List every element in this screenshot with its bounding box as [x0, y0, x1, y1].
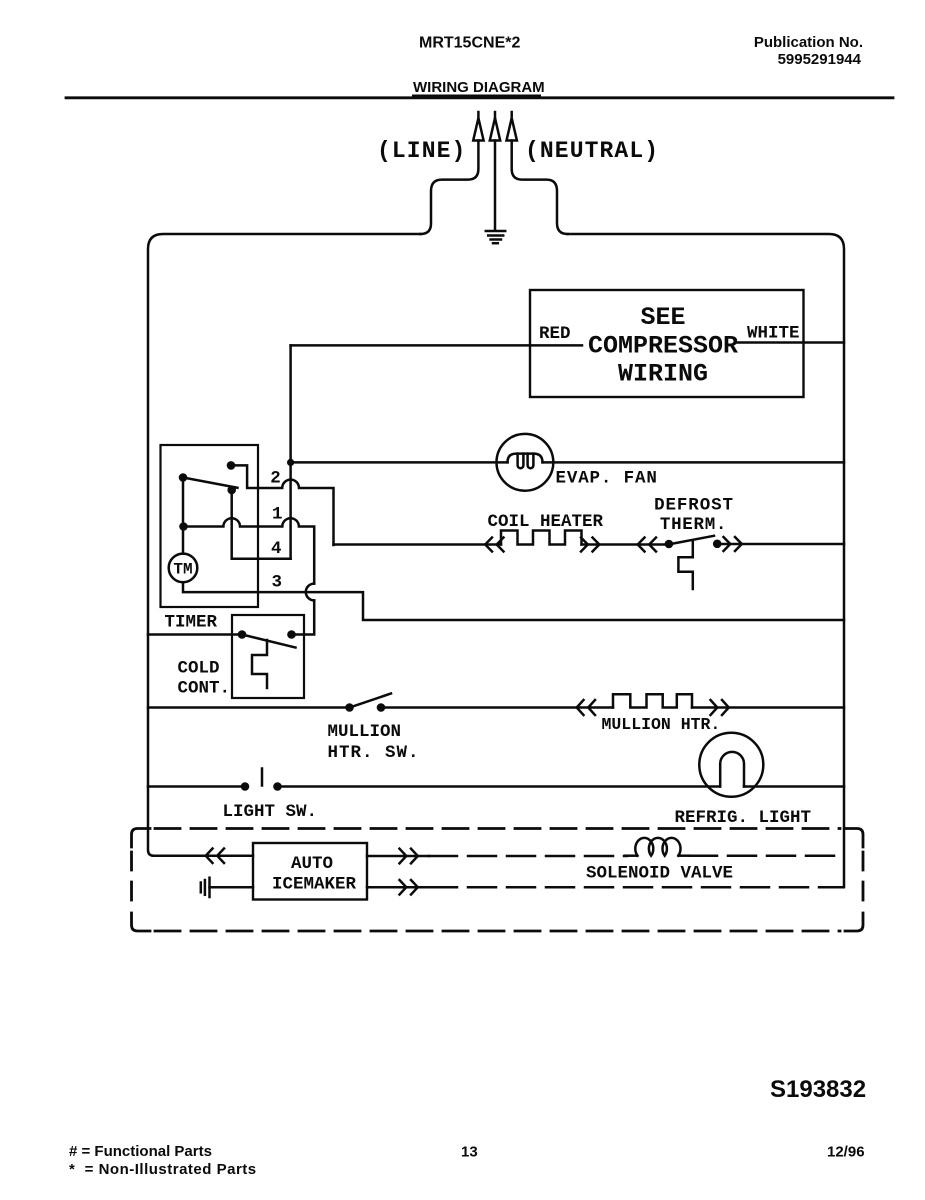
svg-text:S193832: S193832: [770, 1076, 866, 1103]
timer motor TM: [169, 554, 198, 583]
wire terminal 4 to feed vertical: [232, 490, 291, 559]
wire chassis ground to icemaker: [210, 886, 254, 889]
wire mullion line middle segment: [381, 706, 613, 709]
timer terminal dot 4: [227, 486, 236, 495]
svg-text:* = Non-Illustrated Parts: * = Non-Illustrated Parts: [69, 1161, 257, 1178]
svg-text:(LINE): (LINE): [377, 138, 466, 164]
wire light line from left border to light switch: [148, 785, 245, 788]
wire icemaker return bottom: [367, 886, 429, 889]
svg-text:COIL HEATER: COIL HEATER: [488, 512, 604, 532]
wire WHITE from compressor box to right border: [737, 341, 845, 344]
wire RED from compressor box to timer feed vertical: [291, 344, 582, 347]
svg-text:HTR. SW.: HTR. SW.: [328, 743, 420, 763]
cold control box: [232, 615, 304, 698]
svg-text:(NEUTRAL): (NEUTRAL): [525, 138, 659, 164]
svg-text:TM: TM: [173, 561, 192, 579]
defrost thermostat contact dot right: [713, 540, 722, 549]
label COLD CONT.: [178, 659, 231, 699]
header model number text: [419, 35, 520, 52]
wire terminal 1 to cold control (hops over two verticals): [184, 518, 315, 583]
svg-text:2: 2: [270, 469, 281, 489]
defrost thermostat sensing element: [678, 541, 692, 589]
wire terminal1 vertical down to cold control: [292, 600, 315, 634]
ground symbol: [486, 231, 505, 243]
mullion heater element: [613, 694, 692, 707]
svg-text:REFRIG. LIGHT: REFRIG. LIGHT: [675, 808, 812, 828]
svg-text:WIRING DIAGRAM: WIRING DIAGRAM: [413, 79, 545, 96]
evap fan motor M1: [497, 434, 554, 491]
timer terminal dot 1: [179, 522, 188, 531]
label MULLION HTR. SW.: [328, 722, 420, 763]
dashed wire icemaker return to right border: [429, 886, 844, 889]
timer terminal dot 2: [227, 461, 236, 470]
svg-text:MRT15CNE*2: MRT15CNE*2: [419, 35, 520, 52]
svg-text:LIGHT SW.: LIGHT SW.: [223, 802, 318, 822]
footer legend functional parts: [69, 1143, 257, 1178]
svg-text:Publication No.: Publication No.: [754, 34, 863, 51]
svg-text:TIMER: TIMER: [165, 613, 218, 633]
light switch dot right: [273, 782, 282, 791]
connector chevrons on icemaker return: [400, 880, 418, 895]
connector chevrons after mullion heater: [711, 700, 729, 715]
svg-text:COLD: COLD: [178, 659, 220, 679]
svg-text:AUTO: AUTO: [291, 854, 333, 874]
wire evap fan line left segment: [291, 461, 508, 464]
wire vertical feed (red) down to timer terminal 4 level: [289, 345, 292, 558]
label AUTO ICEMAKER: [272, 854, 357, 895]
neutral arrow terminal (middle plug prong): [490, 112, 500, 141]
connector chevrons after defrost thermostat: [724, 537, 742, 551]
connector chevrons on icemaker output top: [400, 849, 418, 864]
wire icemaker output top: [367, 855, 429, 858]
header title WIRING DIAGRAM: [413, 79, 545, 96]
timer box: [161, 445, 259, 607]
dashed wire to solenoid valve: [429, 855, 627, 858]
svg-text:1: 1: [272, 505, 283, 525]
light switch dot left: [241, 782, 250, 791]
connector chevrons on coil heater line (left pair): [485, 538, 503, 552]
header horizontal rule: [66, 96, 893, 99]
mullion heater switch dot left: [345, 703, 354, 712]
compressor box: [530, 290, 804, 397]
svg-text:ICEMAKER: ICEMAKER: [272, 875, 357, 895]
svg-text:EVAP. FAN: EVAP. FAN: [556, 469, 658, 489]
connector chevrons before defrost thermostat: [638, 538, 656, 552]
mullion heater switch dot right: [377, 703, 386, 712]
wire icemaker feed from left border corner: [154, 855, 253, 858]
svg-text:DEFROST: DEFROST: [654, 496, 734, 516]
wire from LINE prong to left border (staircase): [421, 141, 479, 235]
svg-text:4: 4: [271, 539, 282, 559]
wire ground stem: [494, 141, 497, 231]
header publication number text: [754, 34, 863, 68]
svg-text:12/96: 12/96: [827, 1144, 865, 1161]
wire terminal 3 from timer motor to right border: [183, 582, 844, 620]
auto icemaker box: [253, 843, 367, 900]
connector chevrons after coil heater (right pair): [581, 538, 599, 552]
node junction dot at evap fan branch: [287, 459, 294, 466]
svg-text:5995291944: 5995291944: [778, 51, 862, 68]
svg-text:RED: RED: [539, 324, 571, 344]
svg-text:MULLION HTR.: MULLION HTR.: [602, 715, 721, 734]
wire terminal 2 to coil heater line (with hop over feed wire): [231, 465, 334, 545]
wire mullion line from left border to heater switch: [148, 706, 350, 709]
wire left border to cold control: [148, 633, 242, 636]
ground arrow terminal (right plug prong): [507, 112, 517, 141]
dashed wire solenoid to right border: [689, 854, 844, 857]
svg-text:WHITE: WHITE: [747, 324, 800, 344]
svg-text:COMPRESSOR: COMPRESSOR: [588, 332, 738, 361]
solenoid valve coil L1: [625, 838, 690, 856]
cold control switch arm: [242, 635, 296, 648]
svg-text:3: 3: [272, 573, 283, 593]
timer terminal dot common (switch pivot): [179, 473, 188, 482]
wire mullion line to right border: [692, 706, 844, 709]
cold control contact dot left: [238, 630, 247, 639]
label SEE COMPRESSOR WIRING: [588, 303, 738, 389]
wire defrost line to right border: [717, 543, 844, 546]
wire from NEUTRAL prong to right border (staircase): [512, 141, 568, 235]
defrost thermostat switch arm: [668, 536, 714, 545]
wire light line to refrigerator light: [278, 785, 721, 788]
cold control bellows element: [252, 640, 267, 688]
coil heater element: [501, 531, 582, 545]
wire evap fan line right segment to right border: [543, 461, 845, 464]
mullion heater switch arm: [350, 694, 392, 708]
refrigerator light bulb: [699, 733, 763, 797]
svg-text:SOLENOID VALVE: SOLENOID VALVE: [586, 864, 733, 884]
label DEFROST THERM.: [654, 496, 734, 536]
wire hop of terminal1 wire over terminal3 wire: [306, 584, 314, 601]
svg-text:MULLION: MULLION: [328, 722, 402, 742]
cold control contact dot right: [287, 630, 296, 639]
wire between coil heater and defrost thermostat: [582, 543, 669, 546]
svg-text:THERM.: THERM.: [660, 515, 727, 535]
connector chevrons before mullion heater: [577, 700, 595, 715]
timer switch arm: [183, 478, 238, 488]
svg-text:SEE: SEE: [640, 303, 685, 332]
svg-text:WIRING: WIRING: [618, 360, 708, 389]
wire timer pivot to motor: [182, 478, 185, 554]
defrost thermostat contact dot left: [665, 540, 674, 549]
light switch plunger: [261, 769, 264, 786]
main enclosure left border and top edge: [148, 234, 421, 856]
svg-text:13: 13: [461, 1144, 478, 1161]
connector chevrons on icemaker feed: [206, 849, 224, 864]
wire coil heater line left segment: [334, 543, 502, 546]
wire light line to right border: [744, 785, 844, 788]
svg-text:CONT.: CONT.: [178, 679, 231, 699]
svg-text:# = Functional Parts: # = Functional Parts: [69, 1143, 212, 1160]
main enclosure top edge right and right border: [568, 234, 845, 887]
dashed optional-equipment boundary box: [132, 829, 864, 932]
line arrow terminal (left plug prong): [473, 112, 483, 141]
chassis ground symbol: [201, 878, 210, 897]
